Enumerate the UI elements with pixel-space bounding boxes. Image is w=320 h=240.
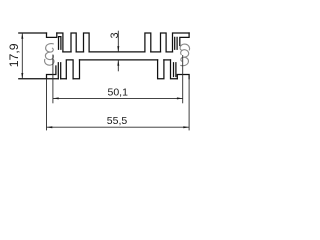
right bottom screw slot [174,63,176,77]
fin F2 [71,33,76,52]
web top span [76,51,83,53]
3 up arrow [117,60,119,66]
web top center span [89,51,145,53]
55,5 right arrow [183,126,189,128]
fin F4 [145,33,151,52]
fin F6 block top to right corner [173,33,190,52]
17,9 vertical dimension line [21,33,23,79]
50,1 dimension line [53,97,183,99]
screw channel squiggle left [45,44,54,66]
fin F3 [84,33,90,52]
3 lower leader [117,60,119,71]
svg-text:3: 3 [109,32,121,38]
55,5 left arrow [47,126,53,128]
fin F1 top [57,33,63,52]
top-left surface + 17,9 top extension line [19,32,47,34]
svg-text:55,5: 55,5 [107,115,128,127]
55,5 left extension [46,79,48,131]
17,9 top arrow [21,33,23,39]
17,9 bottom arrow [21,73,23,79]
50,1 left extension [52,55,54,103]
50,1 right extension [182,55,184,103]
left bottom screw slot [58,63,60,79]
bottom fin A' block [171,60,178,79]
50,1 right arrow [177,97,183,99]
50,1 left arrow [53,97,59,99]
web top span [166,51,172,53]
arrowheads [21,33,189,128]
web top span [151,51,161,53]
bottom fin B tip [73,60,79,79]
dimension lines [22,31,189,131]
bottom gap left [66,60,73,79]
svg-text:17,9: 17,9 [7,43,21,67]
screw channel squiggle right (180 deg rotated copy) [180,44,189,66]
55,5 dimension line [47,126,190,128]
bottom-left surface + 17,9 bottom extension [19,78,67,80]
3 upper leader [117,31,119,52]
web bottom span [164,59,171,61]
bottom-right corner step [177,74,189,78]
3 down arrow [117,46,119,52]
fin F5 [161,33,167,52]
top-left corner step [47,33,57,37]
left top screw slot [59,37,61,50]
heatsink profile outline [19,33,189,79]
55,5 right extension [188,79,190,131]
right top screw slot [175,37,177,49]
web top left span [63,51,71,53]
top-right lip [180,33,189,46]
web bottom center span [80,59,158,61]
bottom fin B' [158,60,164,79]
bottom-left lip [47,66,56,79]
svg-text:50,1: 50,1 [108,87,129,99]
